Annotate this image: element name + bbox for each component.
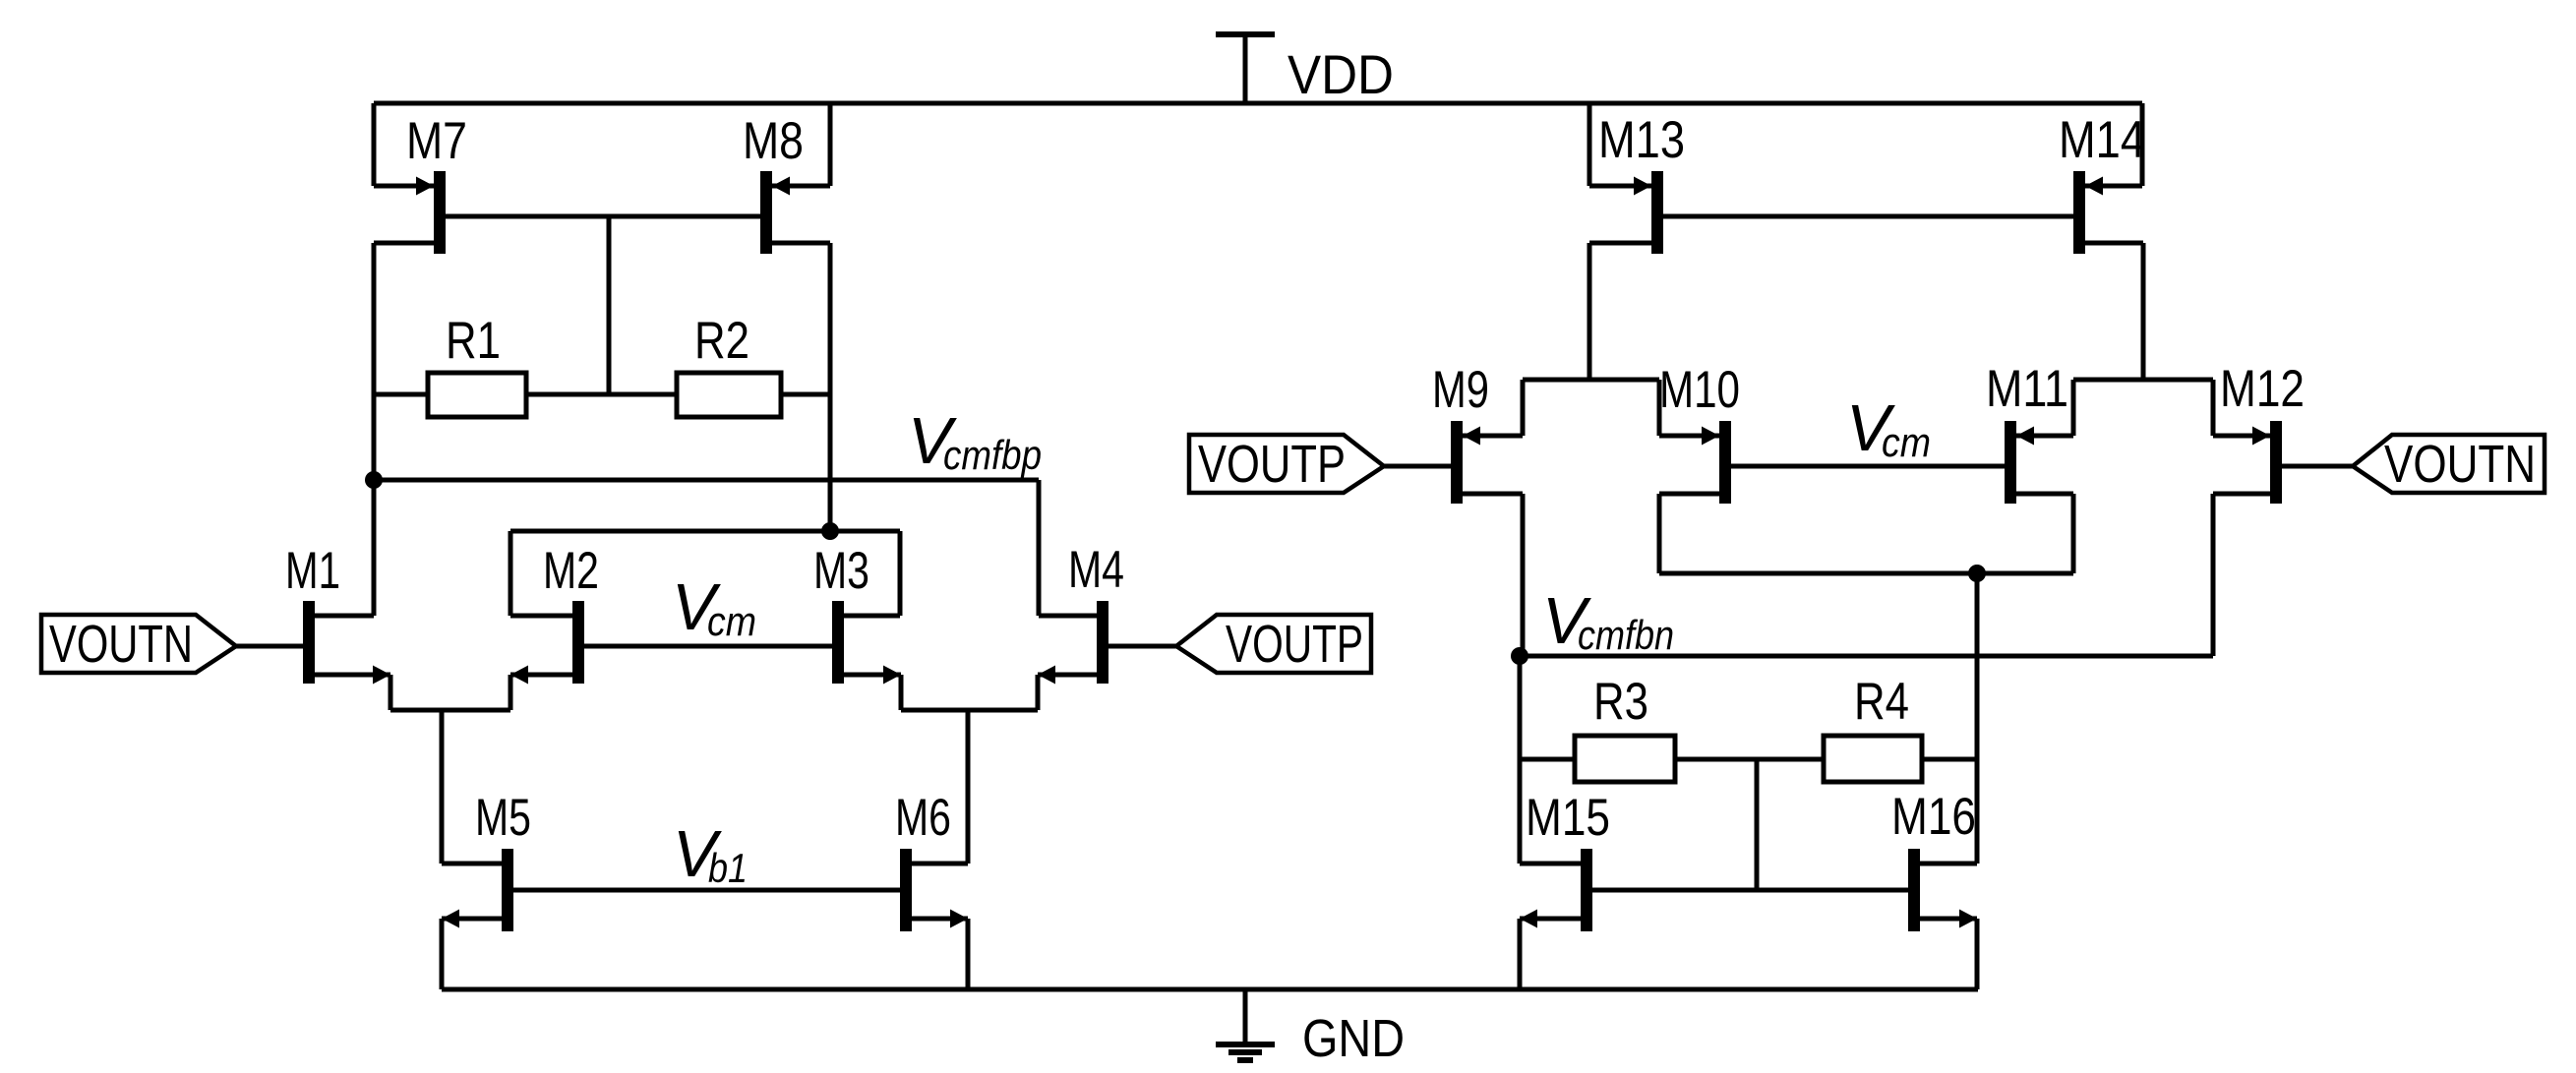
wire Vb1 line (513, 888, 900, 893)
wire VDD rail (374, 101, 2142, 106)
wire M3 M4 tail bus (901, 708, 1038, 713)
svg-text:cm: cm (707, 598, 756, 644)
svg-text:cmfbp: cmfbp (943, 432, 1042, 478)
svg-text:M6: M6 (895, 789, 951, 847)
svg-text:M12: M12 (2220, 360, 2305, 418)
wire gate junction to R1 R2 midpoint (607, 216, 612, 394)
svg-text:R1: R1 (446, 312, 501, 370)
wire M13 source to VDD (1588, 103, 1592, 186)
wire M16 source to GND (1975, 919, 1980, 989)
wire M14 source to VDD (2140, 103, 2145, 186)
resistor R3 (1575, 736, 1675, 782)
wire M8 drain down (828, 243, 833, 531)
wire Vcmfbn down to M15 drain (1518, 656, 1523, 864)
wire R3 to R4 (1675, 757, 1824, 762)
svg-text:M7: M7 (406, 112, 467, 170)
wire M5 source to GND (440, 919, 445, 989)
wire R3 left lead (1520, 757, 1575, 762)
wire M15 source to GND (1518, 919, 1523, 989)
svg-text:R4: R4 (1854, 673, 1909, 731)
resistor R4 (1824, 736, 1922, 782)
svg-text:M10: M10 (1659, 361, 1740, 419)
svg-text:M11: M11 (1986, 360, 2068, 418)
svg-text:GND: GND (1302, 1009, 1405, 1068)
port VOUTP right half (1189, 435, 1384, 493)
wire VOUTN to M1 gate (236, 644, 303, 649)
wire R1 to R2 (526, 392, 677, 397)
wire M2 M3 drain bus (510, 529, 900, 534)
svg-text:M9: M9 (1432, 361, 1489, 419)
transistor M3 (832, 601, 844, 684)
wire M1 source down (389, 675, 393, 710)
wire Vcmfbn (1520, 654, 2213, 659)
wire M12 gate to VOUTN (2282, 464, 2353, 469)
wire tail down to M6 (966, 710, 971, 864)
wire M7 drain down (372, 243, 377, 616)
wire M4 gate to VOUTP (1108, 644, 1176, 649)
svg-text:VDD: VDD (1288, 43, 1394, 105)
transistor M13 (1651, 171, 1663, 254)
wire bus to M11 source (2071, 380, 2076, 436)
svg-text:M16: M16 (1891, 788, 1976, 846)
svg-text:R3: R3 (1593, 673, 1648, 731)
wire bus to M3 drain (898, 531, 903, 616)
svg-text:M15: M15 (1526, 789, 1610, 847)
wire M7 M8 gates (446, 214, 760, 219)
wire M13 M14 gates (1663, 214, 2073, 219)
wire M12 drain down (2211, 494, 2216, 656)
transistor M7 (434, 171, 446, 254)
wire tail down to M5 (440, 710, 445, 864)
svg-text:R2: R2 (694, 312, 749, 370)
wire M14 drain bus (2073, 378, 2213, 383)
wire bus to M2 drain (509, 531, 513, 616)
wire M2 source down (509, 675, 513, 710)
wire M10 drain down (1657, 494, 1662, 573)
transistor M2 (572, 601, 584, 684)
wire bus to M9 source (1521, 380, 1526, 436)
transistor M6 (900, 849, 912, 931)
wire bus to M10 source (1657, 380, 1662, 436)
node Vcmfbp junction (365, 471, 383, 489)
svg-text:VOUTP: VOUTP (1226, 615, 1363, 674)
wire R1 left lead (374, 392, 428, 397)
transistor M4 (1097, 601, 1108, 684)
transistor M8 (760, 171, 772, 254)
wire R4 right lead (1922, 757, 1977, 762)
transistor M14 (2073, 171, 2085, 254)
port VOUTP left half (1176, 615, 1371, 673)
svg-text:M5: M5 (475, 789, 531, 847)
transistor M15 (1581, 849, 1592, 931)
wire GND rail (442, 987, 1978, 992)
resistor R1 (428, 373, 526, 417)
svg-text:VOUTN: VOUTN (2384, 435, 2536, 494)
port VOUTN right (2353, 435, 2545, 493)
transistor M11 (2005, 421, 2016, 504)
node Vcmfbn junction (1511, 647, 1528, 665)
svg-text:VOUTP: VOUTP (1198, 435, 1346, 494)
svg-text:b1: b1 (708, 845, 748, 891)
svg-text:cmfbn: cmfbn (1578, 612, 1674, 658)
wire M4 source down (1036, 675, 1041, 710)
wire M11 drain down (2071, 494, 2076, 573)
transistor M12 (2270, 421, 2282, 504)
wire M14 drain down (2141, 243, 2146, 380)
svg-text:M3: M3 (813, 542, 869, 600)
wire Vcm line left (584, 644, 832, 649)
wire M13 drain down (1588, 243, 1592, 380)
wire M8 source to VDD (828, 103, 833, 186)
transistor M10 (1719, 421, 1731, 504)
wire M7 source to VDD (372, 103, 377, 186)
resistor R2 (677, 373, 781, 417)
svg-text:M2: M2 (543, 542, 599, 600)
wire M15 M16 gates (1592, 888, 1908, 893)
wire R3 R4 midpoint to gates (1755, 759, 1760, 890)
VDD symbol (1216, 31, 1275, 37)
svg-text:cm: cm (1882, 419, 1931, 465)
wire VOUTP to M9 gate (1384, 464, 1451, 469)
svg-text:VOUTN: VOUTN (49, 615, 193, 674)
wire M13 drain bus (1523, 378, 1659, 383)
transistor M5 (502, 849, 513, 931)
svg-text:M1: M1 (285, 542, 340, 600)
node M8 drain junction (821, 522, 839, 540)
wire M10 M11 drain bus (1659, 571, 2073, 576)
svg-text:M4: M4 (1068, 541, 1124, 599)
ground symbol GND (1243, 989, 1248, 1044)
wire M1 M2 tail bus (390, 708, 510, 713)
wire Vcm line right (1731, 464, 2005, 469)
wire bus to M12 source (2211, 380, 2216, 436)
wire M6 source to GND (966, 919, 971, 989)
svg-text:M13: M13 (1598, 111, 1685, 169)
transistor M16 (1908, 849, 1920, 931)
wire Vcmfbp down to M4 drain (1037, 480, 1042, 616)
wire M9 drain down (1521, 494, 1526, 656)
transistor M1 (303, 601, 315, 684)
node drain bus junction (1968, 565, 1986, 582)
wire R2 right lead (781, 392, 830, 397)
wire Vcmfbp (374, 478, 1039, 483)
transistor M9 (1451, 421, 1463, 504)
port VOUTN left (41, 615, 236, 673)
svg-text:M8: M8 (743, 112, 804, 170)
wire bus down to R4 right and M16 drain (1975, 573, 1980, 864)
svg-text:M14: M14 (2059, 111, 2145, 169)
wire M3 source down (899, 675, 904, 710)
